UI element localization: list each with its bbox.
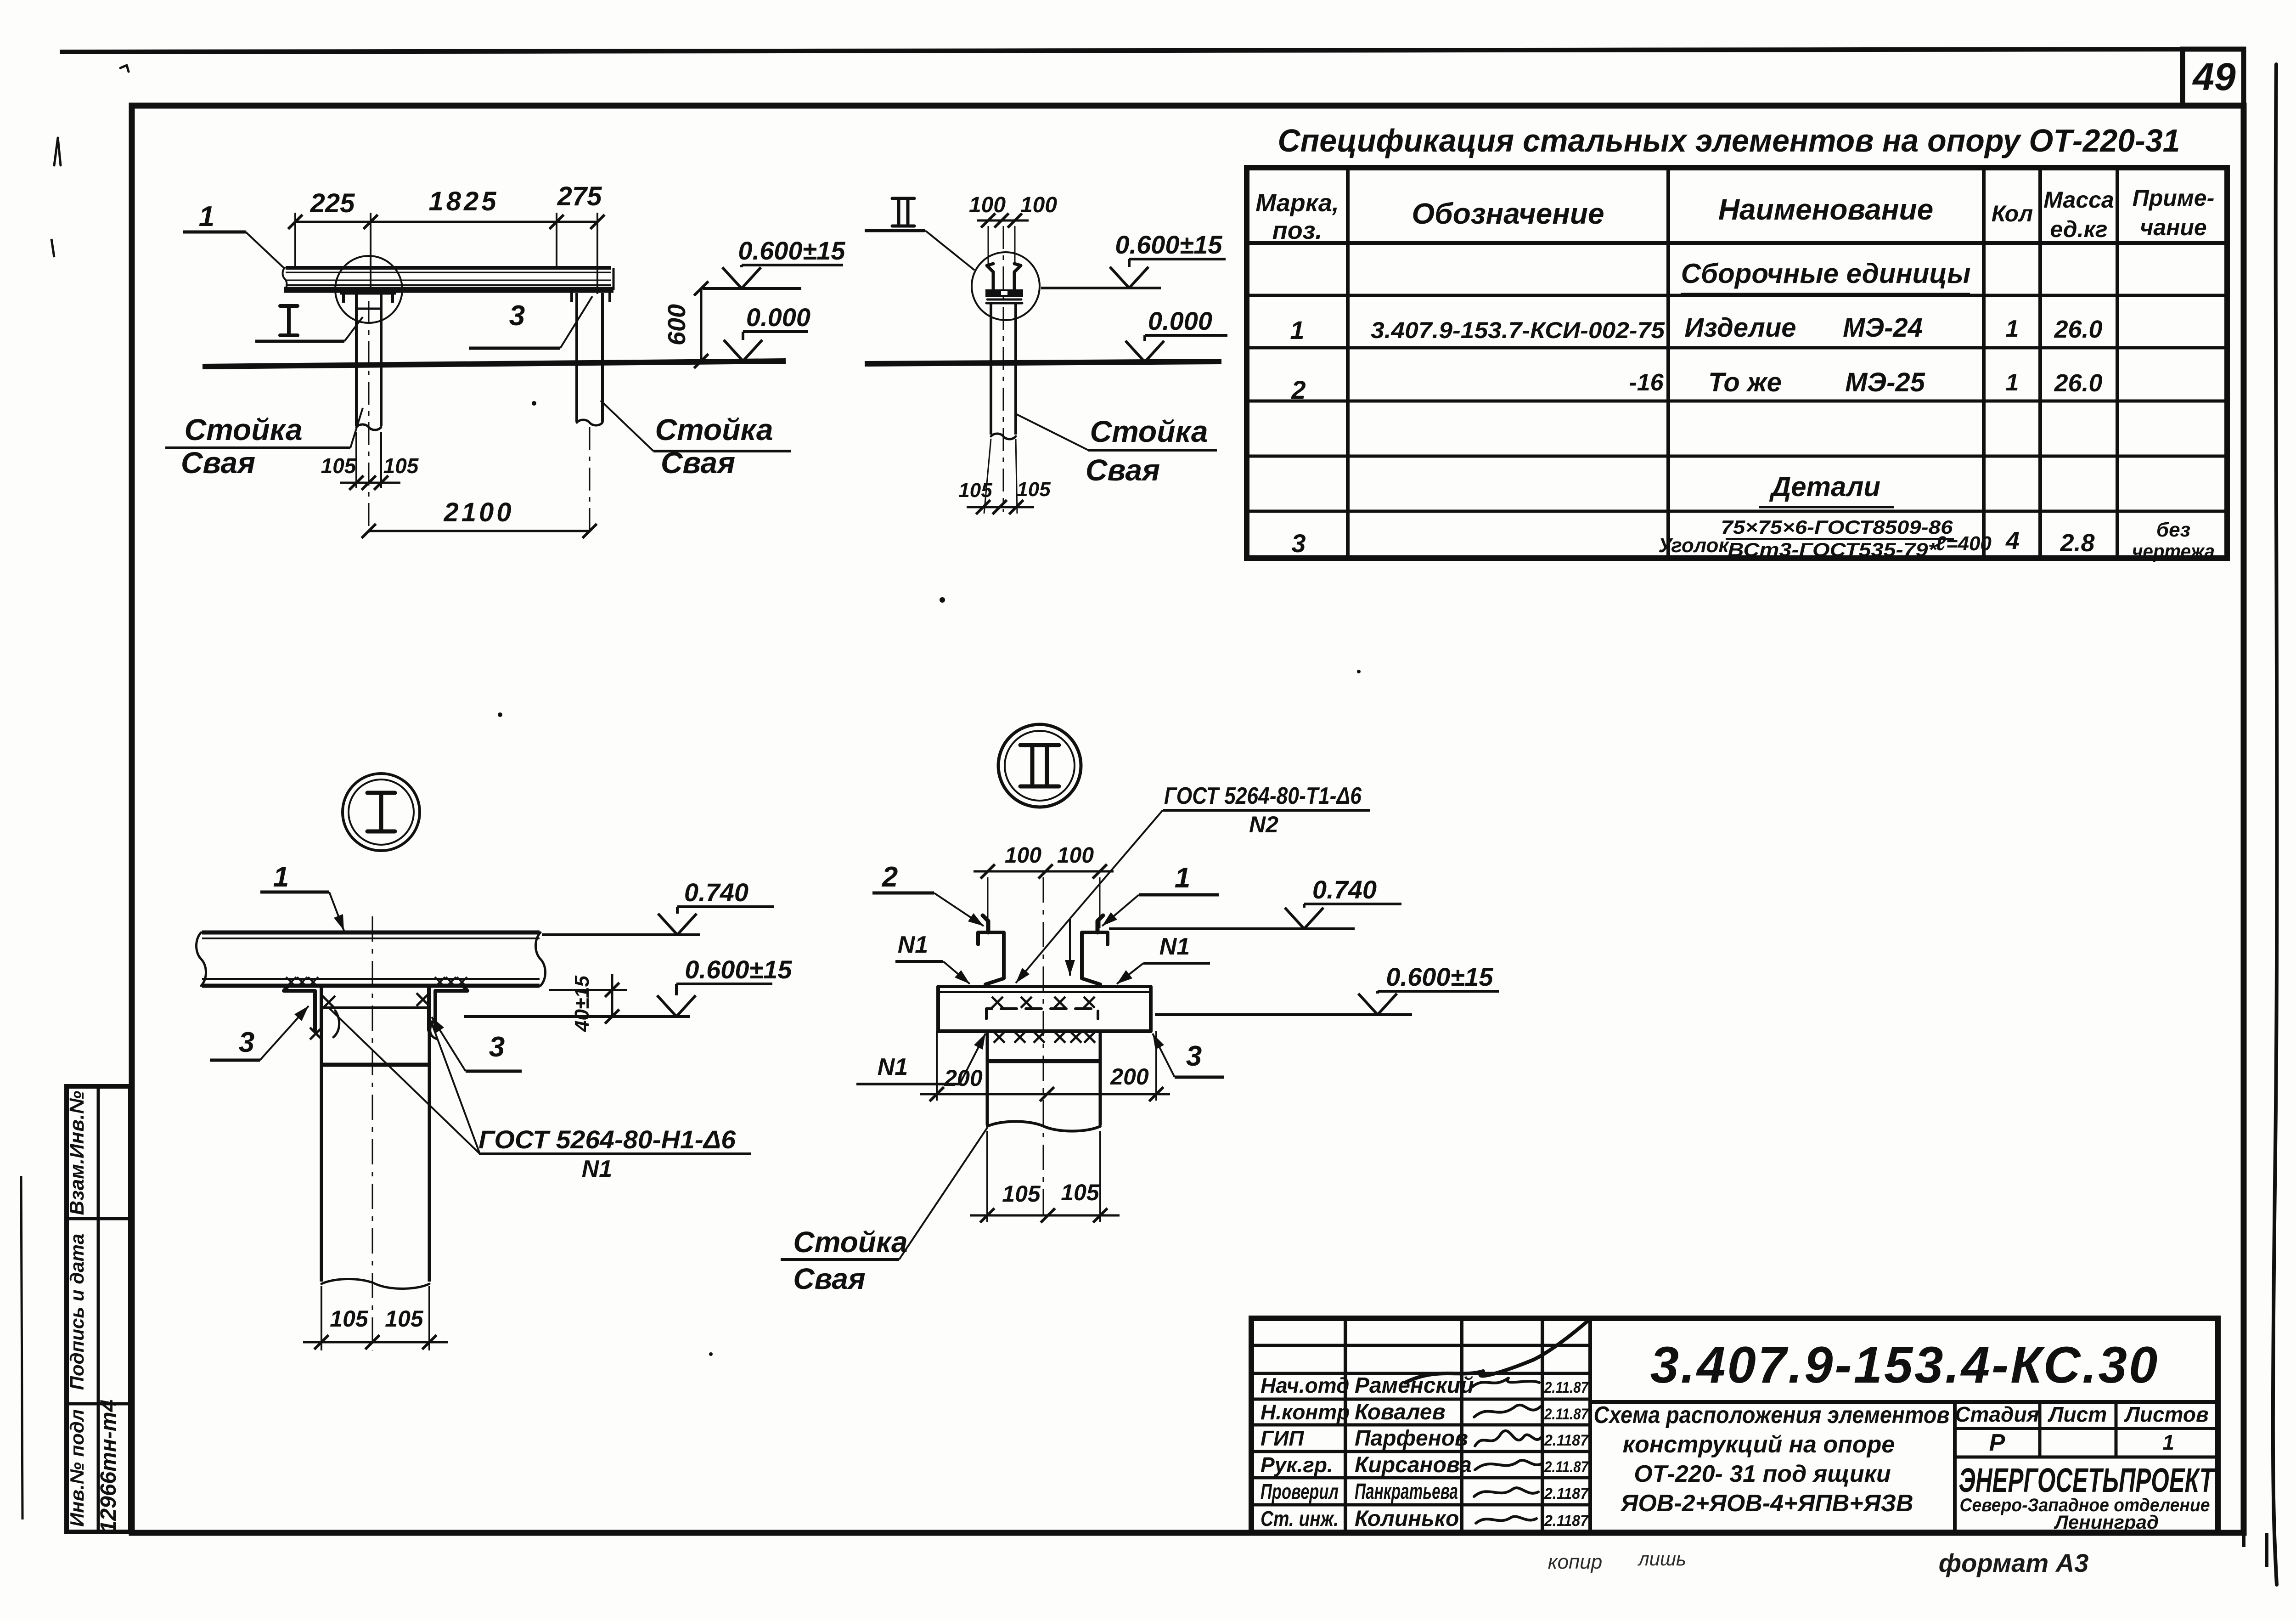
- dwg2 dim extensions: [988, 226, 989, 264]
- svg-text:ЭНЕРГОСЕТЬПРОЕКТ: ЭНЕРГОСЕТЬПРОЕКТ: [1959, 1461, 2216, 1499]
- svg-text:40±15: 40±15: [571, 975, 593, 1032]
- detail I pile joint line: [321, 1063, 429, 1067]
- svg-text:49: 49: [2192, 55, 2236, 98]
- spec table row line 3: [1247, 400, 2227, 403]
- svg-text:лишь: лишь: [1637, 1548, 1686, 1570]
- detail II clip left: [978, 932, 1004, 984]
- detail I elevation 0.600+-15: [676, 983, 772, 985]
- svg-text:Свая: Свая: [1086, 453, 1160, 487]
- svg-text:1: 1: [2006, 316, 2019, 342]
- svg-text:Подпись и дата: Подпись и дата: [66, 1234, 88, 1390]
- title block left columns: [1344, 1318, 1347, 1532]
- svg-text:2100: 2100: [443, 497, 514, 527]
- svg-text:Свая: Свая: [661, 446, 735, 480]
- svg-text:чертежа: чертежа: [2132, 540, 2215, 563]
- svg-text:Ст. инж.: Ст. инж.: [1261, 1507, 1339, 1531]
- scan speck lower-left: [498, 712, 502, 717]
- svg-text:Схема расположения элементов: Схема расположения элементов: [1594, 1402, 1950, 1429]
- svg-text:100: 100: [1020, 193, 1057, 217]
- title block stadia columns: [2038, 1402, 2042, 1457]
- spec table row line 2: [1247, 346, 2227, 350]
- detail I weld xxx left: [286, 977, 296, 987]
- svg-text:1825: 1825: [428, 186, 499, 216]
- title block schema/stadia divider: [1953, 1402, 1957, 1532]
- title block signatures: [1405, 1319, 1590, 1383]
- svg-text:Кирсанова: Кирсанова: [1355, 1453, 1472, 1477]
- spec table column line 3: [1982, 168, 1986, 558]
- dwg2 dim 105 105 bottom: [984, 439, 991, 514]
- svg-text:0.000: 0.000: [746, 303, 810, 332]
- svg-text:1: 1: [1175, 862, 1190, 894]
- spec table outer box: [1247, 168, 2227, 558]
- dwg2 ground line: [865, 361, 1221, 364]
- svg-text:275: 275: [557, 181, 602, 211]
- detail I slab: [202, 931, 540, 935]
- svg-text:Взам.Инв.№: Взам.Инв.№: [66, 1091, 88, 1215]
- svg-text:Парфенов: Парфенов: [1355, 1426, 1468, 1451]
- scan speck near slab: [532, 401, 536, 406]
- spec table row line 5: [1247, 510, 2227, 513]
- detail I right angle poz3: [429, 986, 467, 1030]
- dwg1 pile center line: [368, 301, 370, 533]
- dwg2 dim 100 100: [977, 220, 1029, 222]
- dwg1 slab right end: [613, 268, 615, 290]
- dwg1 dim extension 275 right: [597, 213, 598, 294]
- svg-text:3: 3: [239, 1027, 254, 1058]
- svg-text:105: 105: [383, 454, 419, 478]
- detail I pile: [320, 991, 323, 1282]
- dwg2 label II with leader: [892, 198, 914, 226]
- dwg1 right pile cap: [568, 289, 613, 293]
- svg-text:0.600±15: 0.600±15: [685, 955, 792, 984]
- svg-text:Кол: Кол: [1992, 201, 2033, 226]
- svg-text:копир: копир: [1548, 1551, 1602, 1573]
- dwg2 elevation 0.600+-15: [1129, 258, 1226, 260]
- dwg1 vertical dim 600: [700, 288, 703, 361]
- dwg2 pile center line: [1003, 226, 1004, 512]
- svg-text:Нач.отд: Нач.отд: [1261, 1373, 1349, 1397]
- svg-text:105: 105: [330, 1306, 369, 1332]
- dwg1 pile left joint line: [356, 308, 381, 310]
- svg-text:N1: N1: [878, 1054, 908, 1080]
- svg-text:26.0: 26.0: [2054, 316, 2102, 343]
- title block big line under designation: [1590, 1400, 2218, 1404]
- svg-text:ℓ=400: ℓ=400: [1936, 532, 1992, 555]
- svg-text:Лист: Лист: [2048, 1402, 2107, 1426]
- svg-text:Детали: Детали: [1769, 471, 1880, 502]
- svg-text:200: 200: [1110, 1064, 1149, 1090]
- spec table row line 4: [1247, 455, 2227, 458]
- svg-text:Стойка: Стойка: [184, 412, 302, 446]
- svg-text:4: 4: [2005, 527, 2020, 554]
- svg-text:105: 105: [321, 454, 357, 478]
- svg-text:Наименование: Наименование: [1718, 193, 1933, 226]
- left edge small marks: [54, 138, 61, 165]
- detail II dim 200 200: [936, 1031, 938, 1101]
- side stamp divider h1: [67, 1217, 130, 1220]
- spec table column line 1: [1346, 168, 1350, 558]
- svg-text:ОТ-220- 31 под ящики: ОТ-220- 31 под ящики: [1634, 1461, 1891, 1487]
- svg-text:0.600±15: 0.600±15: [1386, 962, 1493, 991]
- svg-text:Свая: Свая: [793, 1262, 865, 1295]
- svg-text:ЯОВ-2+ЯОВ-4+ЯПВ+ЯЗВ: ЯОВ-2+ЯОВ-4+ЯПВ+ЯЗВ: [1620, 1490, 1913, 1517]
- dwg2 pile: [990, 303, 992, 435]
- frame right outer stub: [2265, 1533, 2268, 1567]
- svg-text:3: 3: [1291, 529, 1306, 558]
- svg-text:2.8: 2.8: [2060, 529, 2094, 557]
- side stamp divider vertical: [97, 1086, 100, 1532]
- svg-text:1: 1: [273, 861, 289, 893]
- spec table row line 1: [1247, 294, 2227, 297]
- dwg1 ground line: [203, 361, 786, 367]
- side stamp divider h2: [67, 1402, 130, 1406]
- svg-text:ГОСТ 5264-80-Н1-Δ6: ГОСТ 5264-80-Н1-Δ6: [478, 1125, 736, 1154]
- svg-text:Обозначение: Обозначение: [1412, 197, 1604, 230]
- dwg2 clip left: [992, 272, 995, 294]
- detail II clip right: [1082, 932, 1108, 984]
- detail I dim 105 105: [321, 1286, 322, 1350]
- dwg1 dim extension pile1 center: [370, 213, 371, 294]
- svg-text:12966тн-т4: 12966тн-т4: [96, 1400, 121, 1533]
- detail I center line: [372, 916, 373, 1350]
- svg-text:105: 105: [385, 1306, 424, 1332]
- detail II elevation 0.740: [1304, 903, 1401, 905]
- svg-text:2.11.87: 2.11.87: [1544, 1379, 1589, 1396]
- svg-text:Стойка: Стойка: [793, 1226, 907, 1259]
- svg-text:0.600±15: 0.600±15: [738, 236, 845, 265]
- spec table header bottom line: [1247, 241, 2227, 245]
- detail II dim extensions: [987, 877, 989, 928]
- svg-text:2.1187: 2.1187: [1544, 1432, 1589, 1449]
- dwg1 pile right: [575, 293, 578, 422]
- svg-text:Инв.№ подл: Инв.№ подл: [66, 1409, 88, 1527]
- svg-text:105: 105: [1061, 1180, 1100, 1205]
- detail II dim 105 105: [986, 1131, 988, 1222]
- svg-text:конструкций на опоре: конструкций на опоре: [1623, 1431, 1895, 1458]
- dwg1 dim extension left: [294, 213, 296, 266]
- svg-text:75×75×6-ГОСТ8509-86: 75×75×6-ГОСТ8509-86: [1721, 516, 1953, 538]
- left paper edge artifact: [21, 1176, 23, 1519]
- svg-text:Уголок: Уголок: [1658, 534, 1730, 557]
- svg-text:МЭ-25: МЭ-25: [1845, 367, 1925, 397]
- svg-text:Рук.гр.: Рук.гр.: [1261, 1453, 1333, 1477]
- svg-text:Колинько: Колинько: [1355, 1507, 1459, 1531]
- dwg1 dim extension 1825 right: [556, 213, 557, 266]
- dwg1 elevation 0.000: [743, 330, 808, 333]
- svg-text:Приме-: Приме-: [2133, 185, 2215, 211]
- svg-text:225: 225: [310, 188, 355, 218]
- svg-text:1: 1: [199, 201, 214, 232]
- svg-text:1: 1: [2162, 1430, 2174, 1454]
- svg-text:Сборочные единицы: Сборочные единицы: [1681, 258, 1971, 289]
- scan speck top-left: [120, 65, 129, 72]
- dwg2 detail II circle: [972, 252, 1040, 320]
- spec table column line 4: [2038, 168, 2042, 558]
- svg-text:Панкратьева: Панкратьева: [1355, 1480, 1458, 1504]
- detail II ring label: [998, 724, 1081, 807]
- dwg1 dim 105 105 under left pile: [355, 432, 357, 488]
- svg-text:105: 105: [958, 479, 992, 502]
- detail II center line: [1043, 877, 1044, 1222]
- svg-text:2: 2: [1291, 375, 1306, 404]
- svg-text:1: 1: [1290, 316, 1304, 345]
- svg-text:Листов: Листов: [2124, 1402, 2208, 1426]
- dwg1 pile left: [355, 294, 358, 426]
- detail II pile: [986, 1031, 989, 1125]
- svg-text:Проверил: Проверил: [1261, 1480, 1339, 1503]
- detail II dim 100 100: [974, 870, 1114, 873]
- detail II weld x bottom row: [994, 1032, 1005, 1043]
- svg-text:N1: N1: [1159, 933, 1190, 960]
- dwg1 top dimension line 225-1825-275: [295, 221, 597, 223]
- svg-text:Р: Р: [1989, 1429, 2005, 1456]
- detail II pile joint line: [987, 1059, 1100, 1063]
- detail I weld x marks: [322, 996, 335, 1009]
- detail II GOST leader fork: [1070, 810, 1163, 919]
- svg-text:100: 100: [969, 193, 1006, 217]
- svg-text:ед.кг: ед.кг: [2050, 216, 2107, 242]
- svg-text:Н.контр: Н.контр: [1261, 1400, 1350, 1424]
- svg-text:Марка,: Марка,: [1255, 189, 1339, 217]
- svg-text:Изделие: Изделие: [1684, 313, 1796, 343]
- svg-text:Свая: Свая: [181, 446, 255, 480]
- svg-text:600: 600: [663, 304, 691, 345]
- svg-text:Стойка: Стойка: [1090, 414, 1208, 448]
- svg-text:100: 100: [1005, 843, 1041, 868]
- svg-text:0.600±15: 0.600±15: [1115, 230, 1222, 259]
- dwg1 label I with leader: [280, 306, 298, 335]
- svg-text:3: 3: [1186, 1040, 1202, 1072]
- svg-text:2: 2: [882, 861, 898, 893]
- page number box: [2183, 49, 2244, 106]
- sheet right edge line: [2273, 64, 2277, 1585]
- scan speck mid page: [940, 597, 945, 603]
- svg-text:ВСт3-ГОСТ535-79*: ВСт3-ГОСТ535-79*: [1728, 539, 1938, 560]
- dwg2 clip right: [1013, 272, 1016, 294]
- svg-text:100: 100: [1057, 843, 1094, 868]
- svg-text:26.0: 26.0: [2054, 369, 2102, 397]
- detail I dim 40+-15: [549, 989, 627, 991]
- dwg1 elevation 0.600+-15: [742, 264, 843, 266]
- svg-text:Стадия: Стадия: [1955, 1402, 2039, 1426]
- detail I pile top line: [321, 1006, 429, 1009]
- svg-text:0.740: 0.740: [684, 878, 748, 907]
- svg-text:105: 105: [1017, 478, 1051, 501]
- dwg2 cap plate lower: [986, 299, 1022, 303]
- title block outer: [1251, 1318, 2218, 1532]
- svg-text:3: 3: [509, 300, 525, 332]
- detail I ring label: [343, 774, 420, 851]
- title block left rows: [1251, 1344, 1590, 1347]
- svg-text:Ленинград: Ленинград: [2054, 1511, 2159, 1533]
- side stamp box: [67, 1086, 130, 1532]
- svg-text:3.407.9-153.4-КС.30: 3.407.9-153.4-КС.30: [1650, 1336, 2160, 1394]
- dwg1 dim 2100: [369, 530, 590, 532]
- sheet top edge line: [60, 49, 2244, 52]
- detail I left angle poz3: [284, 986, 321, 1030]
- svg-text:ГОСТ 5264-80-Т1-Δ6: ГОСТ 5264-80-Т1-Δ6: [1164, 783, 1362, 809]
- svg-text:3.407.9-153.7-КСИ-002-75: 3.407.9-153.7-КСИ-002-75: [1371, 317, 1665, 343]
- svg-text:-16: -16: [1629, 369, 1664, 396]
- svg-text:ГИП: ГИП: [1261, 1426, 1304, 1450]
- svg-text:200: 200: [944, 1065, 983, 1091]
- svg-text:То же: То же: [1708, 367, 1782, 397]
- dwg2 elevation 0.000: [1145, 334, 1227, 337]
- svg-text:без: без: [2156, 519, 2190, 541]
- svg-text:3: 3: [489, 1031, 505, 1063]
- detail II elevation 0.600+-15: [1378, 990, 1499, 993]
- svg-text:N1: N1: [582, 1156, 612, 1182]
- detail I weld xxx right: [435, 977, 445, 987]
- detail II weld x top row: [992, 997, 1003, 1008]
- detail II cap beam: [938, 987, 1151, 1031]
- svg-text:0.000: 0.000: [1148, 306, 1212, 335]
- svg-text:поз.: поз.: [1272, 217, 1322, 244]
- svg-text:105: 105: [1002, 1181, 1041, 1207]
- svg-text:формат А3: формат А3: [1939, 1548, 2089, 1577]
- detail II top plate: [938, 985, 1151, 988]
- detail I elevation 0.740: [677, 905, 774, 908]
- detail II hidden bolt line: [986, 1009, 1098, 1019]
- svg-text:2.11.87: 2.11.87: [1544, 1406, 1589, 1423]
- svg-text:0.740: 0.740: [1312, 875, 1377, 904]
- spec table column line 2: [1666, 168, 1670, 558]
- dwg1 left pile cap: [340, 291, 396, 295]
- svg-text:Ковалев: Ковалев: [1355, 1400, 1446, 1424]
- dwg1 slab beam: [286, 266, 611, 270]
- svg-text:2.1187: 2.1187: [1544, 1512, 1589, 1530]
- svg-text:Спецификация стальных элемен: Спецификация стальных элементов на опору…: [1278, 123, 2180, 158]
- svg-text:2.1187: 2.1187: [1544, 1485, 1589, 1502]
- svg-text:чание: чание: [2140, 215, 2207, 240]
- dwg1 detail I circle: [335, 256, 402, 323]
- svg-text:2.11.87: 2.11.87: [1544, 1458, 1589, 1476]
- svg-text:N2: N2: [1249, 812, 1278, 837]
- svg-text:1: 1: [2006, 369, 2019, 396]
- svg-text:МЭ-24: МЭ-24: [1843, 313, 1923, 343]
- svg-text:Стойка: Стойка: [655, 412, 773, 446]
- dwg2 cap plate upper: [985, 289, 1023, 297]
- svg-text:Масса: Масса: [2043, 187, 2114, 213]
- svg-text:N1: N1: [898, 932, 928, 958]
- spec table column line 5: [2116, 168, 2119, 558]
